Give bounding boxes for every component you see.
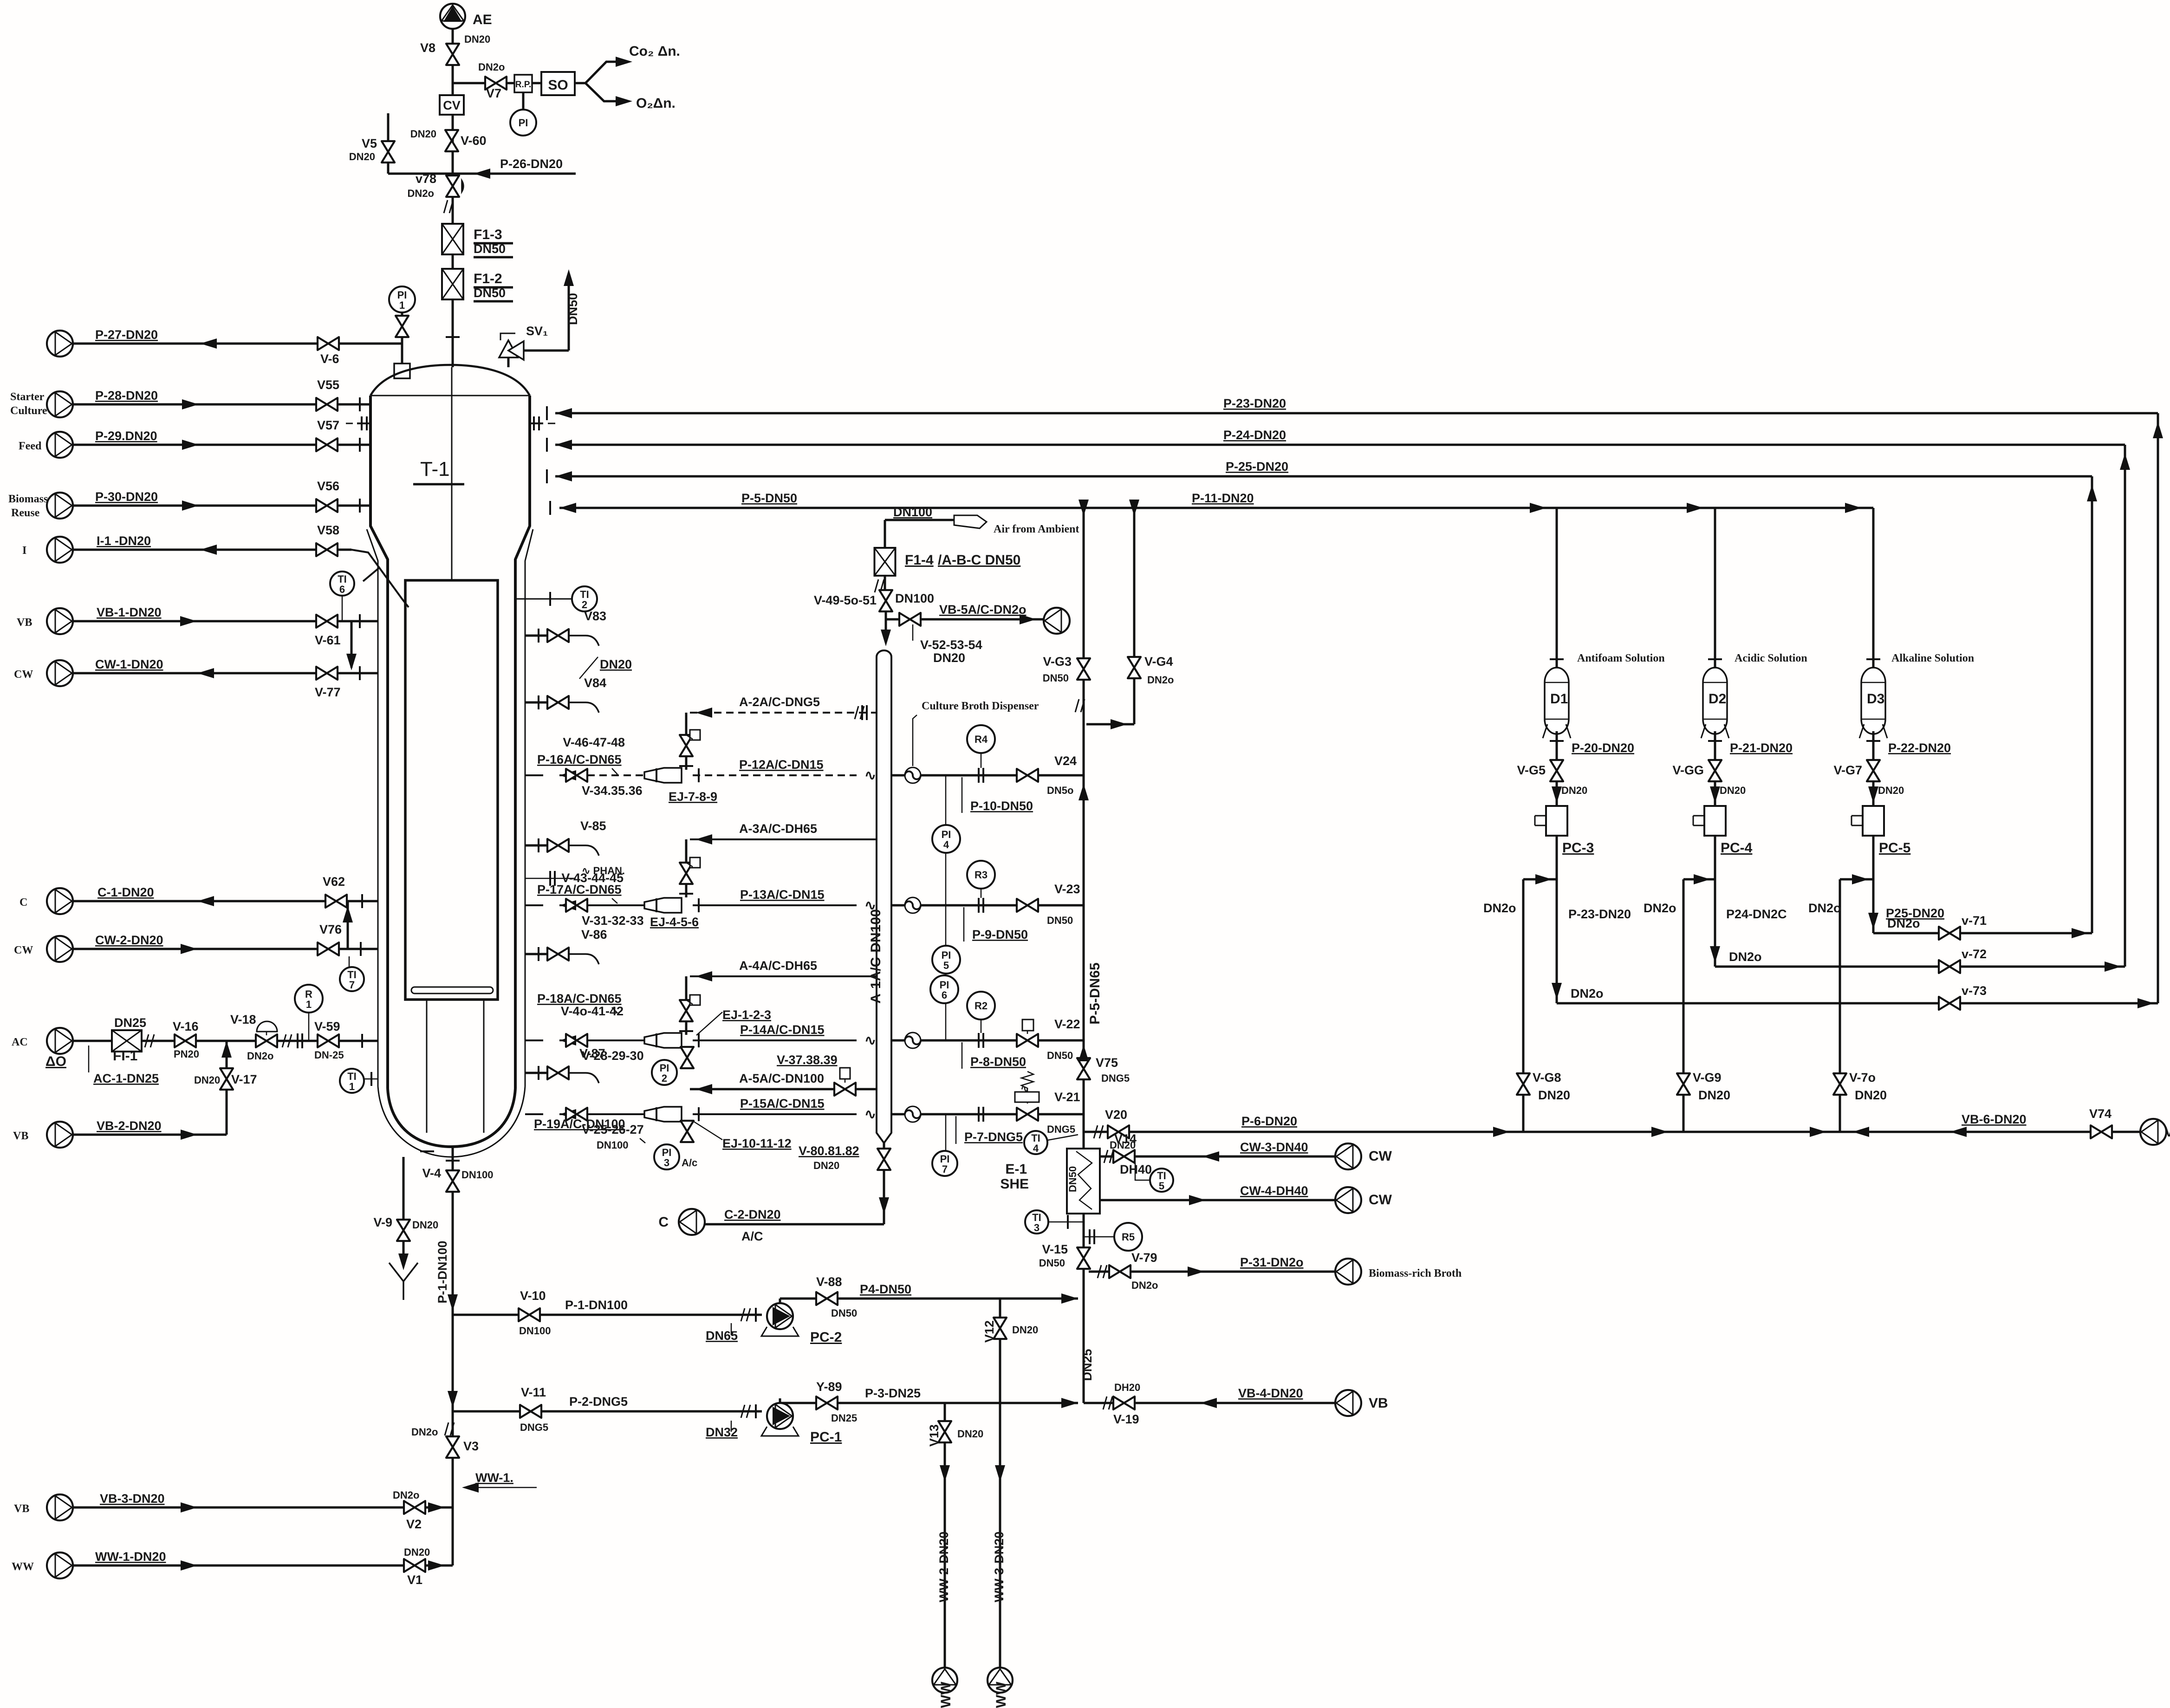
svg-text:WW: WW (938, 1682, 954, 1708)
svg-text:V55: V55 (317, 378, 339, 392)
svg-text:DN2o: DN2o (1808, 901, 1841, 915)
svg-text:V-52-53-54: V-52-53-54 (920, 638, 982, 652)
svg-text:V-86: V-86 (581, 928, 607, 942)
svg-text:V-11: V-11 (521, 1385, 546, 1399)
svg-text:DN65: DN65 (706, 1329, 738, 1343)
svg-text:Culture Broth Dispenser: Culture Broth Dispenser (922, 700, 1039, 712)
svg-text:Culture: Culture (10, 405, 47, 417)
svg-text:EJ-10-11-12: EJ-10-11-12 (722, 1137, 792, 1150)
svg-text:3: 3 (664, 1157, 669, 1169)
svg-text:v-73: v-73 (1962, 984, 1987, 998)
svg-text:P-27-DN20: P-27-DN20 (95, 328, 158, 342)
svg-text:Antifoam Solution: Antifoam Solution (1577, 652, 1665, 664)
svg-text:DN100: DN100 (461, 1169, 493, 1181)
svg-text:V-88: V-88 (816, 1275, 842, 1289)
svg-text:P-1-DN100: P-1-DN100 (435, 1240, 449, 1303)
svg-text:WW-1-DN20: WW-1-DN20 (95, 1550, 166, 1564)
svg-text:v-71: v-71 (1962, 914, 1987, 928)
svg-text:1: 1 (306, 999, 312, 1010)
svg-text:V-59: V-59 (314, 1020, 340, 1033)
svg-text:3: 3 (1034, 1222, 1040, 1234)
svg-text:V83: V83 (584, 609, 606, 623)
svg-text:P-10-DN50: P-10-DN50 (970, 799, 1033, 813)
svg-text:CW: CW (14, 669, 33, 681)
svg-text:V13: V13 (927, 1424, 941, 1447)
svg-text:Y-89: Y-89 (816, 1380, 842, 1394)
svg-text:DN100: DN100 (519, 1325, 551, 1337)
svg-text:5: 5 (1159, 1180, 1164, 1192)
svg-text:V-23: V-23 (1054, 882, 1080, 896)
svg-text:A-1A/C-DN100: A-1A/C-DN100 (868, 909, 884, 1003)
svg-text:∿: ∿ (864, 768, 876, 783)
svg-text:R.P.: R.P. (515, 80, 532, 90)
svg-text:DN100: DN100 (893, 505, 932, 519)
svg-text:DN2o: DN2o (478, 61, 505, 73)
svg-text:DN20: DN20 (1538, 1088, 1570, 1102)
svg-text:1: 1 (349, 1081, 355, 1092)
svg-text:P4-DN50: P4-DN50 (860, 1282, 911, 1296)
svg-text:V-G9: V-G9 (1693, 1071, 1722, 1085)
svg-text:DNG5: DNG5 (1101, 1072, 1130, 1084)
svg-text:P-6-DN20: P-6-DN20 (1241, 1114, 1297, 1128)
svg-text:VB-1-DN20: VB-1-DN20 (97, 605, 162, 619)
svg-text:P-13A/C-DN15: P-13A/C-DN15 (740, 888, 825, 902)
svg-text:7: 7 (942, 1163, 948, 1175)
svg-text:4: 4 (1033, 1143, 1039, 1154)
svg-text:I-1 -DN20: I-1 -DN20 (97, 534, 151, 548)
svg-text:V-31-32-33: V-31-32-33 (582, 914, 644, 928)
svg-text:P-3-DN25: P-3-DN25 (865, 1386, 921, 1400)
svg-text:C-2-DN20: C-2-DN20 (724, 1208, 781, 1221)
svg-text:P-2-DNG5: P-2-DNG5 (569, 1395, 628, 1409)
svg-text:V-17: V-17 (231, 1072, 257, 1086)
svg-text:AC: AC (12, 1036, 28, 1048)
svg-text:2: 2 (662, 1072, 667, 1084)
svg-text:P-24-DN20: P-24-DN20 (1223, 428, 1286, 442)
svg-text:P-7-DNG5: P-7-DNG5 (964, 1130, 1023, 1144)
svg-text:DN20: DN20 (1878, 785, 1904, 796)
svg-text:A/C: A/C (741, 1229, 763, 1243)
svg-text:CW: CW (1369, 1192, 1392, 1208)
svg-text:V24: V24 (1054, 754, 1077, 768)
svg-text:V-49-5o-51: V-49-5o-51 (814, 593, 877, 607)
svg-text:EJ-4-5-6: EJ-4-5-6 (650, 915, 699, 929)
svg-text:I: I (22, 545, 26, 557)
svg-text:F1-4: F1-4 (905, 552, 934, 568)
svg-text:VB: VB (1369, 1396, 1388, 1411)
svg-text:DN20: DN20 (1110, 1139, 1136, 1151)
svg-text:V5: V5 (362, 136, 377, 150)
svg-text:V76: V76 (319, 922, 342, 936)
svg-text:6: 6 (942, 989, 947, 1001)
svg-text:C-1-DN20: C-1-DN20 (97, 885, 154, 899)
svg-text:DN20: DN20 (404, 1546, 430, 1558)
svg-text:4: 4 (943, 839, 949, 851)
svg-text:V74: V74 (2089, 1107, 2112, 1121)
svg-text:DN20: DN20 (194, 1074, 220, 1086)
svg-text:PC-5: PC-5 (1879, 840, 1910, 856)
svg-text:Alkaline Solution: Alkaline Solution (1891, 652, 1974, 664)
svg-text:V-9: V-9 (373, 1215, 392, 1229)
svg-text:DN2o: DN2o (408, 188, 434, 199)
svg-text:P-11-DN20: P-11-DN20 (1192, 491, 1254, 505)
svg-text:P-5-DN50: P-5-DN50 (741, 491, 797, 505)
svg-text:Reuse: Reuse (11, 507, 40, 519)
svg-text:VB-5A/C-DN2o: VB-5A/C-DN2o (939, 603, 1027, 617)
svg-text:P-22-DN20: P-22-DN20 (1888, 741, 1951, 755)
svg-text:V-85: V-85 (580, 819, 606, 833)
svg-text:V-G3: V-G3 (1043, 655, 1072, 669)
svg-text:V57: V57 (317, 418, 339, 432)
svg-text:WW: WW (12, 1561, 34, 1573)
svg-text:V58: V58 (317, 523, 339, 537)
svg-text:DN50: DN50 (831, 1307, 857, 1319)
svg-text:DN50: DN50 (1043, 672, 1069, 684)
svg-text:Biomass: Biomass (8, 493, 48, 505)
svg-text:Co₂ Δn.: Co₂ Δn. (629, 44, 680, 59)
svg-text:P-31-DN2o: P-31-DN2o (1240, 1255, 1304, 1269)
svg-text:DN50: DN50 (1067, 1166, 1079, 1192)
svg-text:A/c: A/c (682, 1157, 697, 1169)
svg-text:Acidic Solution: Acidic Solution (1735, 652, 1807, 664)
svg-text:V-GG: V-GG (1672, 763, 1704, 777)
svg-text:A-2A/C-DNG5: A-2A/C-DNG5 (739, 695, 820, 709)
svg-text:Starter: Starter (10, 391, 45, 403)
svg-text:P-16A/C-DN65: P-16A/C-DN65 (537, 753, 622, 766)
svg-text:Air from Ambient: Air from Ambient (994, 523, 1079, 535)
svg-text:v78: v78 (416, 172, 436, 186)
svg-text:D3: D3 (1867, 691, 1884, 707)
svg-text:DN50: DN50 (1047, 1050, 1073, 1061)
svg-text:V84: V84 (584, 676, 606, 690)
svg-text:WW-1.: WW-1. (475, 1471, 513, 1485)
svg-text:DN20: DN20 (349, 151, 375, 162)
svg-text:P-8-DN50: P-8-DN50 (970, 1055, 1026, 1069)
svg-text:v-72: v-72 (1962, 947, 1987, 961)
svg-text:PC-1: PC-1 (810, 1429, 842, 1445)
svg-text:DN2o: DN2o (1147, 674, 1174, 686)
svg-text:C: C (658, 1214, 669, 1230)
svg-text:V-4: V-4 (422, 1166, 441, 1180)
svg-text:P-29.DN20: P-29.DN20 (95, 429, 157, 443)
svg-text:O₂Δn.: O₂Δn. (636, 96, 676, 111)
svg-text:DN2o: DN2o (1483, 901, 1516, 915)
svg-text:DN50: DN50 (1047, 915, 1073, 926)
svg-text:DN2o: DN2o (1887, 916, 1920, 930)
svg-text:V56: V56 (317, 479, 339, 493)
svg-text:DNG5: DNG5 (520, 1422, 548, 1433)
svg-text:V7: V7 (486, 86, 501, 100)
svg-text:V-6: V-6 (320, 352, 339, 366)
svg-text:DN20: DN20 (957, 1428, 983, 1440)
svg-text:DN25: DN25 (114, 1016, 146, 1030)
svg-text:P-14A/C-DN15: P-14A/C-DN15 (740, 1023, 825, 1037)
svg-text:DN2o: DN2o (1644, 901, 1676, 915)
svg-text:P-26-DN20: P-26-DN20 (500, 157, 563, 171)
svg-text:P24-DN2C: P24-DN2C (1726, 907, 1787, 921)
svg-text:V-18: V-18 (230, 1013, 256, 1026)
svg-text:DN20: DN20 (1698, 1088, 1730, 1102)
svg-text:A-3A/C-DH65: A-3A/C-DH65 (739, 822, 817, 836)
svg-text:Feed: Feed (19, 440, 42, 452)
svg-text:VB-4-DN20: VB-4-DN20 (1238, 1386, 1303, 1400)
svg-text:P-5-DN65: P-5-DN65 (1087, 962, 1103, 1024)
svg-text:P-21-DN20: P-21-DN20 (1730, 741, 1793, 755)
svg-text:DN2o: DN2o (1571, 987, 1604, 1000)
svg-text:VB-2-DN20: VB-2-DN20 (97, 1119, 162, 1133)
svg-text:P-23-DN20: P-23-DN20 (1223, 396, 1286, 410)
svg-text:V1: V1 (407, 1573, 422, 1587)
svg-text:V-43-44-45: V-43-44-45 (561, 871, 624, 885)
svg-text:DN2o: DN2o (411, 1426, 438, 1438)
svg-text:VB: VB (2164, 1124, 2170, 1140)
svg-text:DN25: DN25 (831, 1412, 857, 1424)
svg-text:DN20: DN20 (412, 1219, 438, 1231)
svg-text:V-7o: V-7o (1849, 1071, 1876, 1085)
svg-text:DN20: DN20 (1012, 1324, 1038, 1336)
svg-text:F1-3: F1-3 (474, 227, 502, 242)
svg-text:C: C (19, 896, 27, 909)
svg-text:T-1: T-1 (420, 458, 450, 481)
svg-text:R3: R3 (975, 869, 988, 881)
svg-text:DN50: DN50 (566, 293, 580, 325)
svg-text:PC-3: PC-3 (1562, 840, 1594, 856)
svg-text:V-16: V-16 (173, 1020, 199, 1033)
svg-text:DH40: DH40 (1120, 1162, 1152, 1176)
svg-text:VB-6-DN20: VB-6-DN20 (1962, 1112, 2027, 1126)
svg-text:DN20: DN20 (464, 33, 490, 45)
svg-text:A-5A/C-DN100: A-5A/C-DN100 (739, 1072, 824, 1085)
svg-text:DN20: DN20 (933, 651, 965, 665)
svg-text:A-4A/C-DH65: A-4A/C-DH65 (739, 959, 817, 973)
svg-text:AE: AE (473, 12, 492, 27)
svg-text:V-G5: V-G5 (1517, 763, 1546, 777)
svg-text:DN20: DN20 (1855, 1088, 1887, 1102)
svg-text:VB: VB (17, 617, 32, 629)
svg-text:VB: VB (13, 1130, 28, 1142)
svg-text:EJ-7-8-9: EJ-7-8-9 (669, 790, 717, 804)
svg-text:ΔO: ΔO (45, 1054, 66, 1069)
svg-text:V-46-47-48: V-46-47-48 (563, 735, 625, 749)
svg-text:6: 6 (339, 584, 345, 595)
svg-text:P-18A/C-DN65: P-18A/C-DN65 (537, 992, 622, 1006)
svg-text:DN20: DN20 (410, 128, 436, 140)
svg-text:PC-4: PC-4 (1721, 840, 1753, 856)
svg-text:EJ-1-2-3: EJ-1-2-3 (722, 1008, 771, 1022)
svg-text:P-28-DN20: P-28-DN20 (95, 389, 158, 403)
svg-text:5: 5 (943, 960, 949, 971)
svg-text:DH20: DH20 (1114, 1382, 1140, 1393)
svg-text:PN20: PN20 (174, 1048, 199, 1060)
svg-text:∿: ∿ (864, 1033, 876, 1048)
svg-text:D2: D2 (1709, 691, 1726, 707)
svg-text:∿: ∿ (864, 1107, 876, 1122)
svg-text:DN2o: DN2o (1729, 950, 1762, 964)
svg-text:DN5o: DN5o (1047, 785, 1073, 796)
svg-text:V-22: V-22 (1054, 1017, 1080, 1031)
svg-text:V20: V20 (1105, 1108, 1127, 1122)
svg-text:V-80.81.82: V-80.81.82 (799, 1144, 859, 1158)
svg-text:V-10: V-10 (520, 1289, 546, 1303)
svg-text:V-G7: V-G7 (1833, 763, 1862, 777)
svg-text:P-30-DN20: P-30-DN20 (95, 490, 158, 504)
svg-text:DNG5: DNG5 (1047, 1124, 1075, 1135)
svg-text:V-61: V-61 (315, 633, 341, 647)
svg-text:SHE: SHE (1000, 1176, 1029, 1192)
svg-text:VB-3-DN20: VB-3-DN20 (100, 1492, 165, 1506)
svg-text:DN2o: DN2o (247, 1050, 273, 1062)
svg-text:AC-1-DN25: AC-1-DN25 (93, 1072, 159, 1085)
svg-text:DN50: DN50 (474, 286, 506, 300)
svg-text:V-77: V-77 (315, 685, 341, 699)
svg-text:VB: VB (14, 1503, 29, 1515)
svg-text:DN20: DN20 (1561, 785, 1587, 796)
svg-text:CW-2-DN20: CW-2-DN20 (95, 933, 163, 947)
svg-text:Biomass-rich Broth: Biomass-rich Broth (1369, 1267, 1462, 1279)
svg-text:V8: V8 (420, 41, 435, 55)
svg-text:/A-B-C DN50: /A-B-C DN50 (938, 552, 1020, 568)
svg-text:DN-25: DN-25 (314, 1049, 344, 1061)
svg-text:WW-3-DN20: WW-3-DN20 (992, 1532, 1006, 1602)
svg-text:CW-4-DH40: CW-4-DH40 (1240, 1184, 1308, 1198)
svg-text:DN50: DN50 (1039, 1257, 1065, 1269)
svg-text:DN32: DN32 (706, 1425, 738, 1439)
svg-text:CW: CW (1369, 1149, 1392, 1164)
svg-text:V-21: V-21 (1054, 1090, 1080, 1104)
svg-text:V-G4: V-G4 (1144, 655, 1173, 669)
svg-text:WW-2-DN20: WW-2-DN20 (937, 1532, 951, 1602)
svg-text:R4: R4 (975, 734, 988, 745)
svg-text:DN100: DN100 (895, 591, 934, 605)
svg-text:V-79: V-79 (1131, 1251, 1157, 1265)
svg-text:R2: R2 (975, 1000, 988, 1012)
svg-text:D1: D1 (1550, 691, 1568, 707)
svg-text:P-25-DN20: P-25-DN20 (1226, 460, 1288, 474)
svg-text:7: 7 (349, 979, 355, 991)
svg-text:PI: PI (519, 117, 528, 129)
svg-text:SO: SO (548, 78, 568, 93)
svg-text:CV: CV (443, 98, 461, 112)
svg-text:R5: R5 (1122, 1231, 1135, 1243)
svg-text:V-15: V-15 (1042, 1242, 1068, 1256)
svg-text:P-20-DN20: P-20-DN20 (1572, 741, 1634, 755)
svg-text:V62: V62 (323, 875, 345, 889)
svg-text:FI-1: FI-1 (113, 1048, 137, 1064)
svg-text:V3: V3 (463, 1439, 479, 1453)
svg-text:PC-2: PC-2 (810, 1330, 842, 1345)
svg-text:V-37.38.39: V-37.38.39 (777, 1053, 838, 1067)
svg-text:DN20: DN20 (813, 1160, 839, 1171)
svg-text:V75: V75 (1096, 1056, 1118, 1070)
svg-text:DN50: DN50 (474, 242, 506, 256)
svg-text:P-12A/C-DN15: P-12A/C-DN15 (739, 758, 824, 772)
svg-text:F1-2: F1-2 (474, 271, 502, 286)
svg-text:WW: WW (994, 1682, 1009, 1708)
svg-text:V12: V12 (982, 1320, 996, 1343)
svg-text:E-1: E-1 (1005, 1162, 1027, 1177)
svg-text:P-19A/C-DN100: P-19A/C-DN100 (534, 1117, 625, 1131)
svg-text:P-23-DN20: P-23-DN20 (1568, 907, 1631, 921)
svg-text:DN2o: DN2o (1131, 1279, 1158, 1291)
svg-text:V2: V2 (406, 1517, 422, 1531)
svg-text:∿: ∿ (1020, 1083, 1029, 1094)
svg-text:V-34.35.36: V-34.35.36 (582, 784, 643, 798)
svg-text:V-60: V-60 (461, 134, 487, 148)
svg-text:SV₁: SV₁ (526, 324, 548, 338)
svg-text:V-28-29-30: V-28-29-30 (582, 1049, 644, 1063)
svg-text:P-15A/C-DN15: P-15A/C-DN15 (740, 1097, 825, 1111)
svg-text:V-G8: V-G8 (1533, 1071, 1561, 1085)
svg-text:DN100: DN100 (597, 1139, 628, 1151)
svg-text:DN25: DN25 (1080, 1349, 1094, 1381)
svg-text:CW-3-DN40: CW-3-DN40 (1240, 1140, 1308, 1154)
svg-text:P-1-DN100: P-1-DN100 (565, 1298, 628, 1312)
svg-text:DN20: DN20 (1720, 785, 1746, 796)
svg-text:DN20: DN20 (600, 657, 632, 671)
svg-text:V-19: V-19 (1113, 1412, 1139, 1426)
svg-text:P-9-DN50: P-9-DN50 (972, 928, 1028, 942)
svg-text:CW-1-DN20: CW-1-DN20 (95, 657, 163, 671)
svg-text:V-4o-41-42: V-4o-41-42 (561, 1004, 624, 1018)
svg-text:CW: CW (14, 944, 33, 956)
svg-text:DN2o: DN2o (393, 1489, 419, 1501)
svg-text:1: 1 (399, 299, 405, 311)
